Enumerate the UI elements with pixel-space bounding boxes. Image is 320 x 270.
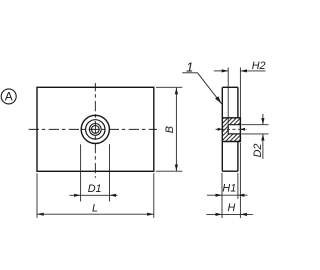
- svg-text:1: 1: [186, 60, 193, 75]
- svg-text:B: B: [164, 126, 176, 133]
- svg-text:D2: D2: [252, 144, 264, 158]
- svg-text:D1: D1: [88, 183, 102, 195]
- svg-text:H: H: [227, 202, 235, 214]
- svg-text:L: L: [92, 202, 98, 214]
- svg-text:A: A: [5, 90, 13, 104]
- svg-text:H2: H2: [252, 60, 266, 72]
- svg-text:H1: H1: [222, 182, 236, 194]
